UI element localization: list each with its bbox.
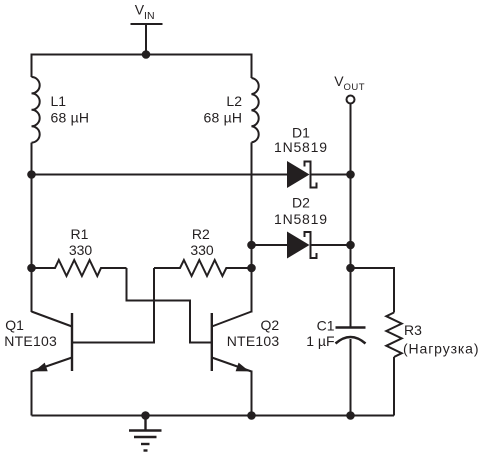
wire R3 branch bottom — [393, 357, 395, 416]
svg-text:D2: D2 — [292, 194, 310, 210]
node VOUT rail D1 junction — [346, 170, 355, 179]
node right column R2 junction — [247, 264, 256, 273]
wire R3 branch top — [351, 268, 395, 313]
wire Q1 emitter to bottom rail — [31, 371, 33, 416]
node VOUT rail D2 junction — [346, 241, 355, 250]
power terminal VIN bar — [131, 23, 163, 25]
transistor Q1 — [32, 312, 73, 372]
inductor L1 — [32, 77, 40, 143]
svg-text:R1: R1 — [71, 226, 89, 242]
node left rail D1 junction — [27, 170, 36, 179]
svg-text:1N5819: 1N5819 — [274, 211, 327, 227]
ground — [129, 416, 162, 451]
svg-text:330: 330 — [69, 242, 93, 258]
diode D2 — [287, 231, 317, 259]
svg-text:1 µF: 1 µF — [306, 333, 334, 349]
resistor R3 — [386, 313, 401, 358]
wire right column middle — [251, 142, 253, 312]
wire Q2 emitter to bottom rail — [251, 371, 253, 416]
wire R1 to Q2 base — [127, 268, 212, 343]
wire VOUT rail upper — [350, 104, 352, 328]
svg-text:R3: R3 — [404, 322, 422, 338]
svg-text:VIN: VIN — [135, 2, 155, 22]
node bottom rail Q2 emitter junction — [247, 411, 256, 420]
node left rail R1 junction — [27, 264, 36, 273]
wire VOUT rail lower — [350, 339, 352, 416]
resistor R1 — [32, 260, 127, 276]
transistor Q2 — [212, 312, 252, 372]
capacitor C1 — [336, 328, 366, 344]
svg-text:68 µH: 68 µH — [51, 110, 90, 126]
svg-text:L2: L2 — [226, 93, 242, 109]
wire right column upper — [251, 54, 253, 79]
inductor L2 — [252, 78, 259, 142]
svg-text:R2: R2 — [192, 226, 210, 242]
svg-text:(Нагрузка): (Нагрузка) — [403, 341, 479, 357]
node bottom rail C1 junction — [346, 411, 355, 420]
svg-text:Q2: Q2 — [261, 317, 280, 333]
svg-text:Q1: Q1 — [5, 317, 24, 333]
svg-text:1N5819: 1N5819 — [274, 139, 327, 155]
node D2 anode junction — [247, 241, 256, 250]
svg-text:C1: C1 — [317, 318, 335, 334]
wire D1 anode — [32, 174, 289, 176]
svg-text:NTE103: NTE103 — [227, 333, 280, 349]
svg-text:NTE103: NTE103 — [4, 333, 57, 349]
svg-text:68 µH: 68 µH — [204, 110, 243, 126]
node VOUT rail R3 junction — [346, 264, 355, 273]
svg-text:D1: D1 — [292, 124, 310, 140]
svg-text:VOUT: VOUT — [334, 73, 365, 93]
node VIN junction — [142, 50, 151, 59]
wire left rail middle — [31, 143, 33, 312]
wire left rail upper — [31, 54, 33, 78]
node bottom rail ground junction — [141, 411, 150, 420]
diode D1 — [287, 161, 317, 189]
wire VIN stub — [145, 24, 147, 55]
terminal VOUT circle — [347, 96, 355, 104]
wire bottom rail — [32, 415, 395, 417]
svg-text:L1: L1 — [51, 93, 67, 109]
wire D2 cathode — [311, 244, 351, 246]
wire D1 cathode — [311, 174, 351, 176]
wire R2 to Q1 base — [72, 268, 154, 343]
svg-text:330: 330 — [190, 242, 214, 258]
wire top rail — [32, 54, 252, 56]
resistor R2 — [154, 260, 252, 276]
wire D2 anode — [252, 244, 289, 246]
